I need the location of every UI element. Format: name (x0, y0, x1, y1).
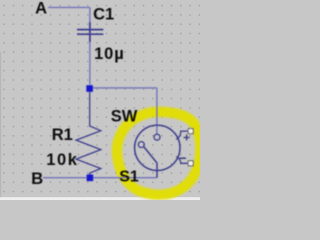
wire A horizontal (48, 6, 90, 8)
svg-text:10µ: 10µ (94, 45, 125, 63)
switch left contact (138, 142, 144, 148)
svg-text:SW: SW (111, 108, 138, 126)
left edge shade (0, 52, 1, 200)
node junction square top (86, 85, 93, 92)
svg-text:B: B (31, 170, 43, 188)
wire vertical A-corner to junction (89, 7, 91, 86)
svg-text:A: A (35, 0, 47, 18)
wire junction to switch (horizontal) (90, 87, 157, 89)
svg-text:10k: 10k (46, 151, 78, 169)
plus sign (184, 135, 190, 141)
switch SW body circle (135, 125, 180, 170)
switch top contact (154, 134, 160, 140)
node junction square bottom (87, 175, 94, 182)
svg-text:R1: R1 (52, 126, 73, 144)
terminal hook top (176, 131, 187, 139)
capacitor C1 (77, 22, 103, 42)
terminal square top (188, 129, 193, 134)
svg-text:S1: S1 (119, 169, 139, 186)
highlighter annotation (yellow marker loop around switch) (117, 112, 200, 195)
bottom edge strip (0, 197, 200, 200)
terminal square bottom (188, 161, 193, 166)
wire B horizontal (43, 177, 157, 179)
minus sign (180, 157, 186, 159)
grid dots (0, 0, 200, 200)
resistor R1 (76, 92, 101, 177)
terminal hook bottom (176, 157, 187, 164)
switch lever (144, 147, 157, 163)
svg-text:C1: C1 (93, 6, 114, 24)
switch common lead down to B wire (156, 163, 158, 178)
wire corner down to switch (156, 88, 158, 134)
